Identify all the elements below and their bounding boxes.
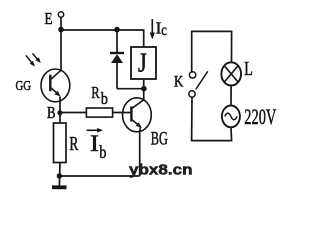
svg-text:E: E (45, 9, 53, 28)
svg-text:I: I (90, 131, 99, 156)
svg-text:L: L (244, 58, 253, 80)
svg-text:c: c (161, 22, 167, 39)
svg-text:b: b (99, 142, 106, 162)
svg-text:R: R (69, 133, 78, 155)
svg-text:B: B (47, 103, 56, 122)
svg-text:BG: BG (151, 129, 168, 150)
svg-text:GG: GG (16, 79, 32, 94)
svg-text:220V: 220V (244, 104, 276, 129)
svg-text:R: R (91, 83, 100, 102)
svg-text:J: J (138, 47, 147, 77)
svg-text:ybx8.cn: ybx8.cn (129, 163, 193, 179)
svg-text:b: b (101, 89, 108, 108)
svg-text:K: K (174, 74, 184, 91)
